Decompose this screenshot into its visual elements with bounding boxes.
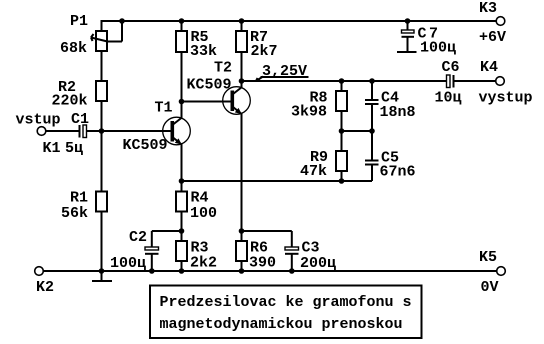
svg-text:390: 390	[249, 255, 276, 272]
svg-text:56k: 56k	[61, 205, 88, 222]
svg-text:T1: T1	[155, 100, 173, 117]
svg-text:R1: R1	[70, 190, 88, 207]
svg-text:18n8: 18n8	[380, 104, 416, 121]
svg-text:200ц: 200ц	[300, 255, 336, 272]
svg-text:C2: C2	[129, 229, 147, 246]
svg-text:K3: K3	[479, 0, 497, 17]
svg-text:C6: C6	[442, 59, 460, 76]
svg-text:220k: 220k	[52, 93, 88, 110]
svg-text:Predzesilovac ke gramofonu s: Predzesilovac ke gramofonu s	[160, 294, 412, 311]
svg-text:P1: P1	[70, 13, 88, 30]
svg-text:100ц: 100ц	[420, 40, 456, 57]
svg-text:67n6: 67n6	[380, 164, 416, 181]
svg-text:10ц: 10ц	[435, 90, 462, 107]
svg-text:C1: C1	[71, 111, 89, 128]
svg-text:K4: K4	[480, 59, 498, 76]
svg-text:0V: 0V	[481, 279, 499, 296]
svg-text:vstup: vstup	[16, 112, 61, 129]
svg-text:5ц: 5ц	[65, 140, 83, 157]
svg-text:KC509: KC509	[123, 137, 168, 154]
svg-text:KC509: KC509	[187, 77, 232, 94]
svg-text:2k2: 2k2	[190, 255, 217, 272]
svg-text:T2: T2	[214, 60, 232, 77]
svg-text:2k7: 2k7	[251, 43, 278, 60]
svg-text:K2: K2	[36, 279, 54, 296]
svg-text:K1: K1	[43, 140, 61, 157]
svg-text:R4: R4	[191, 190, 209, 207]
svg-text:100: 100	[190, 205, 217, 222]
svg-text:100ц: 100ц	[110, 255, 146, 272]
svg-text:68k: 68k	[60, 40, 87, 57]
svg-text:K5: K5	[479, 249, 497, 266]
svg-text:+6V: +6V	[479, 29, 506, 46]
svg-text:magnetodynamickou prenoskou: magnetodynamickou prenoskou	[160, 316, 403, 333]
svg-text:47k: 47k	[300, 163, 327, 180]
svg-text:vystup: vystup	[479, 90, 533, 107]
svg-text:3,25V: 3,25V	[262, 63, 307, 80]
svg-text:3k98: 3k98	[291, 104, 327, 121]
svg-text:33k: 33k	[190, 43, 217, 60]
svg-text:C3: C3	[302, 240, 320, 257]
